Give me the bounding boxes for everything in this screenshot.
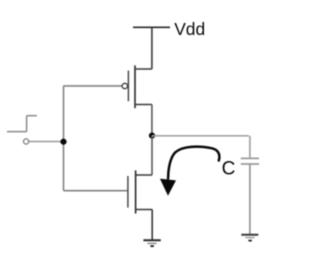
wire: input step source low segment xyxy=(7,131,27,133)
wire: capacitor to ground xyxy=(249,165,251,235)
capacitor C top plate xyxy=(241,157,259,159)
ground (right, capacitor) xyxy=(241,235,258,241)
wire: Vdd to PMOS source xyxy=(151,27,153,69)
transistor Q1 PMOS source tap xyxy=(135,68,152,70)
wire: PMOS drain to output node xyxy=(151,105,153,136)
wire: input step high segment xyxy=(27,115,37,117)
wire: PMOS gate wire xyxy=(64,85,123,87)
transistor Q1 PMOS gate bar xyxy=(127,71,129,102)
svg-text:Vdd: Vdd xyxy=(174,19,205,39)
transistor Q1 PMOS drain tap xyxy=(135,104,152,106)
wire: input step rise xyxy=(26,116,28,132)
transistor Q2 NMOS source tap xyxy=(136,209,153,211)
wire: output node to capacitor xyxy=(152,136,250,158)
transistor Q2 NMOS drain tap xyxy=(136,174,152,176)
transistor Q1 PMOS channel bar xyxy=(134,65,136,108)
wire: NMOS source to ground xyxy=(151,210,153,241)
transistor Q1 PMOS bubble xyxy=(122,83,127,88)
wire: NMOS gate wire xyxy=(64,190,128,192)
ground (left, NMOS source) xyxy=(143,240,160,246)
transistor Q2 NMOS channel bar xyxy=(135,170,137,213)
node A (input junction dot) xyxy=(60,139,66,145)
wire: output node to NMOS drain xyxy=(151,136,153,175)
wire: input vertical bus xyxy=(63,86,65,191)
Vdd rail xyxy=(133,26,170,28)
discharge arrow head xyxy=(161,179,175,194)
wire: input terminal to node A xyxy=(29,141,64,143)
transistor Q2 NMOS gate bar xyxy=(127,176,129,208)
node OUT (output junction dot) xyxy=(149,133,155,139)
svg-text:C: C xyxy=(222,159,236,180)
input terminal (open circle) xyxy=(24,139,29,144)
capacitor C bottom plate xyxy=(241,163,259,165)
discharge current arrow (curved) xyxy=(168,147,219,179)
